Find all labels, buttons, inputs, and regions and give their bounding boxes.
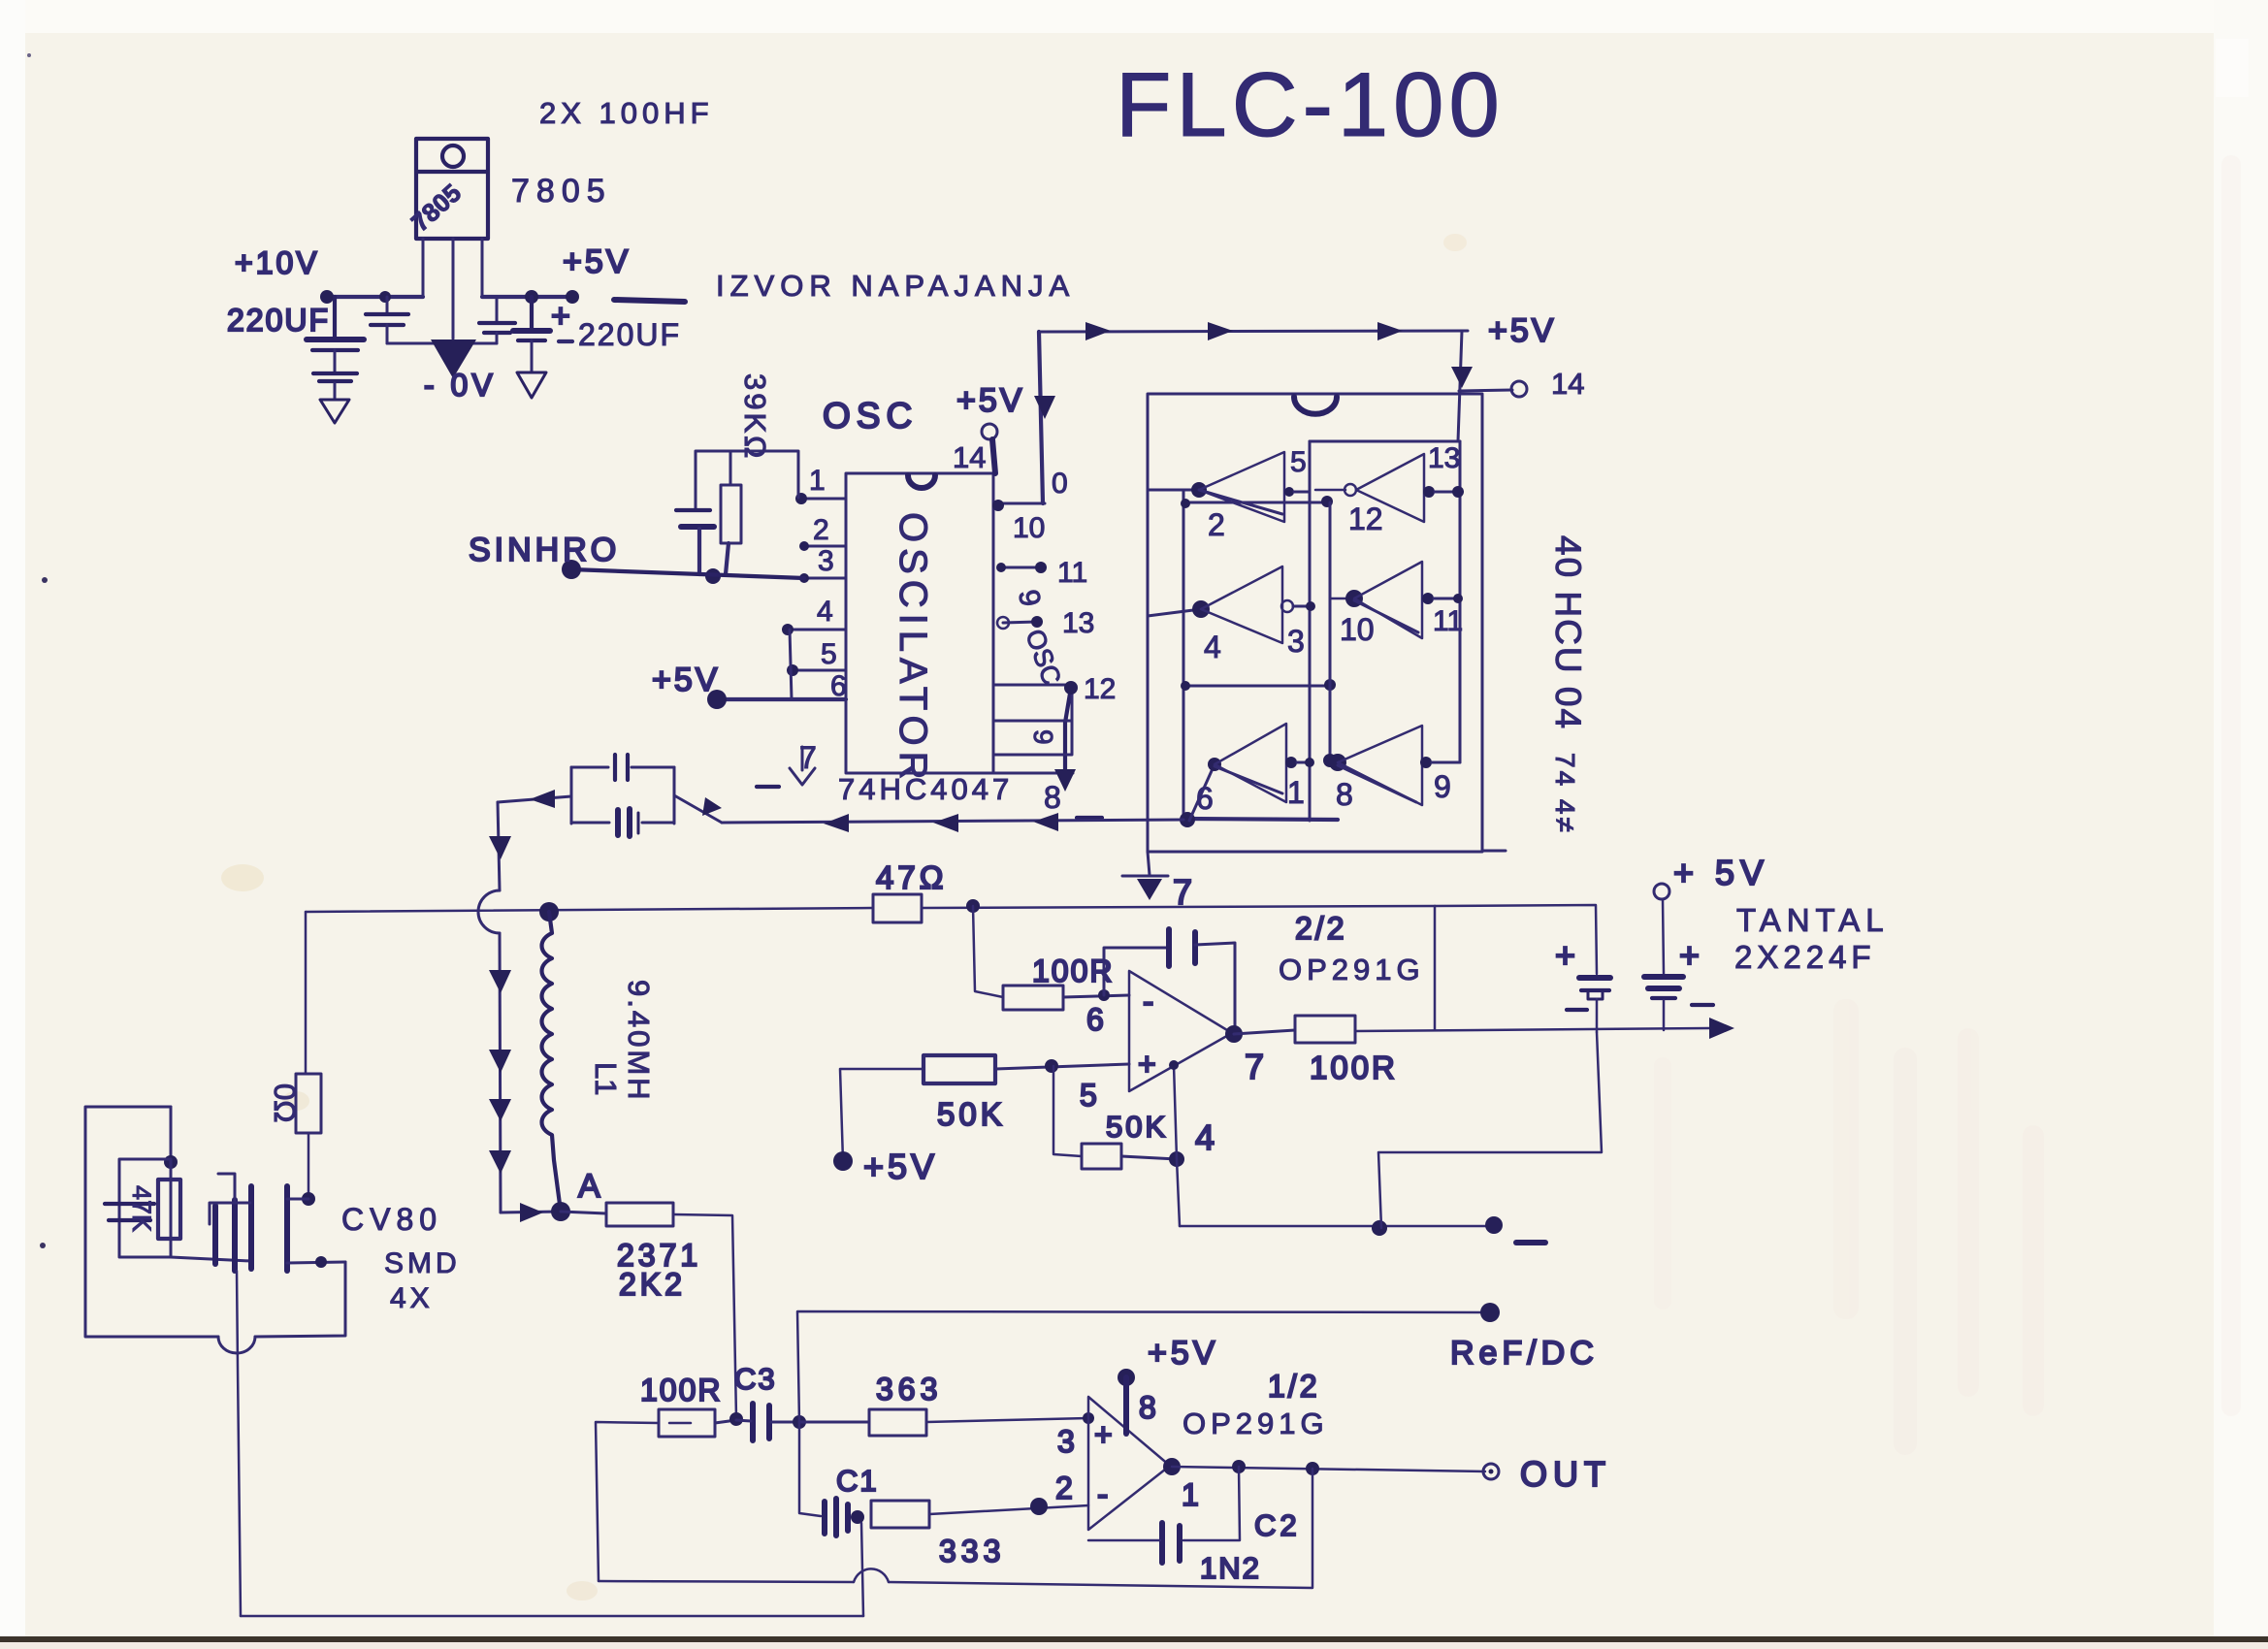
svg-text:220UF: 220UF	[227, 303, 330, 338]
svg-text:CV80: CV80	[341, 1202, 442, 1237]
svg-text:13: 13	[1428, 442, 1460, 474]
svg-text:+5V: +5V	[563, 243, 631, 280]
regulator U3 7805 body	[405, 139, 488, 239]
wire main rail	[306, 908, 873, 912]
pin 11/9 stubs	[1001, 566, 1041, 569]
wire caps to left corner	[498, 796, 571, 802]
svg-text:SMD: SMD	[384, 1247, 461, 1279]
capacitor C2-in ceramic	[366, 297, 408, 343]
wire 100R loop left	[596, 1422, 659, 1581]
svg-text:A: A	[578, 1168, 600, 1205]
resistor R-osc 39K vertical	[721, 451, 741, 574]
svg-text:2X 100HF: 2X 100HF	[539, 96, 714, 130]
wire 363 to +in	[926, 1418, 1088, 1422]
svg-text:+: +	[1555, 935, 1575, 975]
svg-text:11: 11	[1057, 557, 1087, 589]
svg-text:333: 333	[939, 1534, 1005, 1568]
wire rail end down to 0R	[305, 912, 308, 1074]
inverter A2	[1148, 566, 1315, 664]
svg-text:+: +	[1679, 935, 1700, 975]
left drop vertical with arrows	[498, 802, 500, 890]
capacitor C4-out electrolytic 220uF	[513, 297, 570, 398]
svg-text:6: 6	[830, 670, 847, 702]
pin 8 bottom edge extension	[993, 772, 1073, 775]
svg-text:3: 3	[1287, 624, 1305, 659]
IC U1 74HC4047 box	[846, 473, 993, 773]
trimmer block 47K box	[119, 1159, 171, 1257]
terminal SINHRO	[562, 560, 581, 579]
svg-text:2/2: 2/2	[1295, 911, 1346, 946]
rail drop to hex vcc	[1458, 331, 1462, 441]
bus mid vertical	[1329, 502, 1332, 760]
capacitor C3-out ceramic	[479, 297, 515, 343]
capacitor C1	[825, 1499, 848, 1536]
hex bottom edge overshoot	[1482, 850, 1506, 853]
pin 5 stub	[791, 669, 846, 672]
svg-text:1: 1	[1182, 1477, 1199, 1512]
svg-text:74 4≠: 74 4≠	[1550, 753, 1580, 835]
svg-text:1/2: 1/2	[1268, 1369, 1319, 1404]
svg-text:0Ω: 0Ω	[268, 1083, 302, 1122]
wire refdc riser	[797, 1311, 1490, 1422]
ground arrow under C-in	[320, 400, 349, 423]
capacitor Ct1 tantal	[1579, 975, 1610, 981]
svg-text:IZVOR NAPAJANJA: IZVOR NAPAJANJA	[716, 269, 1075, 303]
wire CV80 top lead	[287, 1198, 308, 1201]
resistor R10 363	[869, 1409, 926, 1436]
resistor R8 2371/2K2	[606, 1203, 673, 1226]
inductor L1	[542, 912, 562, 1212]
svg-text:TANTAL: TANTAL	[1736, 902, 1890, 938]
svg-text:1: 1	[1287, 775, 1305, 810]
resistor R5 100R fb	[1295, 1016, 1355, 1043]
resistor R2 0R vertical	[296, 1074, 321, 1133]
inverter B2	[1330, 562, 1463, 647]
39K top bracket wire	[696, 451, 798, 498]
wire C1 branch down	[799, 1422, 821, 1516]
wire 47K bottom to CV80	[171, 1257, 250, 1261]
svg-text:9: 9	[1434, 769, 1451, 804]
svg-text:8: 8	[1139, 1390, 1156, 1425]
wire cap to output corner	[1195, 943, 1235, 1028]
op-amp U4B triangle	[1129, 971, 1232, 1091]
svg-text:C2: C2	[1254, 1508, 1301, 1542]
wire C3 to 363	[799, 1421, 869, 1424]
capacitor C2 loop	[1183, 1467, 1240, 1540]
svg-text:1N2: 1N2	[1200, 1551, 1261, 1585]
wire 0R to CV80	[308, 1133, 310, 1199]
+5V pin8 bar	[1118, 1369, 1135, 1386]
pin 2 stub	[804, 545, 846, 548]
svg-text:14: 14	[953, 440, 986, 474]
svg-text:10: 10	[1340, 612, 1375, 647]
CV80 arm stub	[210, 1203, 250, 1224]
wire input rail	[323, 295, 423, 299]
output node 1/2	[1163, 1458, 1181, 1475]
svg-text:40 HCU 04: 40 HCU 04	[1548, 535, 1588, 730]
wire riser to top rail	[1434, 906, 1437, 1030]
svg-text:9: 9	[1028, 729, 1058, 745]
svg-text:C3: C3	[734, 1362, 777, 1396]
wire fb rail to tantal arrow	[1355, 1028, 1709, 1031]
svg-text:12: 12	[1084, 673, 1116, 705]
resistor R9 100R lower	[659, 1409, 715, 1437]
pin 12 drop wire with arrow	[1065, 688, 1071, 771]
wire 100R to C3	[715, 1420, 736, 1423]
svg-text:8: 8	[1336, 777, 1353, 812]
svg-text:12: 12	[1348, 501, 1383, 536]
inverter B3	[1329, 726, 1460, 812]
pin4-6 tie bar	[790, 630, 792, 699]
svg-text:+: +	[551, 298, 570, 335]
svg-text:3: 3	[1057, 1424, 1075, 1459]
resistor R6 50K	[923, 1055, 995, 1083]
wire rail corner to cap1	[1435, 905, 1597, 974]
wire 333 to -in	[929, 1505, 1088, 1514]
wire SINHRO input	[571, 569, 804, 578]
inner right rect	[1310, 440, 1460, 443]
svg-text:OSC: OSC	[823, 396, 918, 436]
legend dash izvor napajanja	[614, 300, 685, 302]
pin 14 wire hex	[1459, 390, 1512, 391]
wire output to OUT	[1172, 1467, 1485, 1471]
svg-text:2K2: 2K2	[619, 1267, 686, 1302]
capacitor inside 47K	[105, 1204, 154, 1220]
svg-text:1: 1	[809, 465, 826, 497]
svg-text:OSCILATOR: OSCILATOR	[891, 512, 934, 785]
capacitor CV80 plates	[248, 1186, 254, 1269]
rail arrowheads	[1085, 322, 1111, 340]
wire lower return rail	[599, 1581, 854, 1582]
wire +5V top rail	[1039, 331, 1468, 332]
wire mid return rail	[722, 820, 1183, 823]
svg-text:50K: 50K	[937, 1096, 1006, 1132]
pin 6 stub from +5V	[717, 697, 846, 701]
output node 2/2	[1225, 1025, 1243, 1043]
node 47R right	[966, 899, 980, 913]
capacitor C3	[753, 1404, 769, 1440]
wire 50K left to +5V	[840, 1069, 923, 1161]
svg-text:50K: 50K	[1106, 1110, 1168, 1144]
IC notch hex	[1294, 397, 1337, 414]
op-amp U4A triangle	[1088, 1397, 1170, 1530]
outer loop rect left	[85, 1107, 218, 1337]
svg-text:8: 8	[1044, 780, 1061, 815]
svg-text:+: +	[1138, 1047, 1156, 1082]
resistor R11 333	[871, 1501, 929, 1528]
wire 2K2 leads	[561, 1212, 606, 1213]
wire C1 down to bottom rail	[861, 1523, 863, 1616]
svg-text:4X: 4X	[390, 1282, 434, 1314]
pin 3 stub	[804, 577, 846, 580]
svg-text:SINHRO: SINHRO	[469, 532, 620, 568]
svg-text:100R: 100R	[640, 1373, 723, 1407]
svg-text:100R: 100R	[1310, 1050, 1398, 1085]
svg-text:74HC4047: 74HC4047	[838, 772, 1013, 806]
wire 50K lower right	[1121, 1156, 1177, 1159]
resistor R4 100R input	[1003, 986, 1063, 1010]
ground wire to arrow	[387, 342, 497, 345]
svg-text:OUT: OUT	[1520, 1454, 1611, 1494]
svg-text:+5V: +5V	[1488, 312, 1556, 349]
wire down to minus line	[1177, 1159, 1180, 1226]
wire drop to bottom rail	[237, 1271, 241, 1616]
wire +input divider drop	[1053, 1066, 1082, 1156]
pin 13/OSC stubs	[1003, 622, 1037, 623]
wire 50K to +input	[995, 1064, 1129, 1069]
svg-text:9.40MH: 9.40MH	[622, 980, 656, 1103]
feedback cap branch	[1104, 948, 1167, 995]
svg-text:-: -	[1143, 984, 1153, 1020]
wire pin0/10 to riser	[993, 502, 1045, 505]
wire caps to rail	[674, 795, 722, 823]
svg-text:L1: L1	[589, 1062, 623, 1095]
svg-text:4: 4	[1204, 630, 1221, 664]
riser wire to +5V rail	[1039, 332, 1043, 503]
IC notch	[908, 475, 935, 488]
svg-text:6: 6	[1086, 1002, 1104, 1037]
svg-text:100R: 100R	[1032, 954, 1115, 988]
svg-text:3: 3	[818, 545, 834, 577]
svg-text:13: 13	[1062, 607, 1094, 639]
svg-text:363: 363	[876, 1372, 942, 1406]
svg-text:+5V: +5V	[863, 1147, 938, 1186]
wire up to +input	[1174, 1065, 1177, 1159]
node L1 top	[539, 902, 559, 921]
svg-text:2: 2	[813, 514, 829, 546]
pin 4 stub	[788, 629, 846, 631]
wire CV80 bottom lead	[287, 1262, 345, 1263]
svg-text:OP291G: OP291G	[1183, 1406, 1329, 1440]
svg-text:+5V: +5V	[1148, 1335, 1218, 1372]
svg-text:5: 5	[821, 638, 837, 670]
svg-text:2: 2	[1055, 1471, 1073, 1505]
inner left rect	[1183, 490, 1185, 821]
svg-text:OP291G: OP291G	[1279, 953, 1425, 986]
ground arrow center (filled)	[431, 339, 476, 378]
wire corner to node A	[501, 1212, 561, 1212]
svg-text:7: 7	[1245, 1047, 1264, 1086]
arrow on riser	[1034, 396, 1055, 419]
inverter A3	[1189, 724, 1314, 821]
svg-text:14: 14	[1551, 367, 1584, 401]
svg-text:5: 5	[1290, 446, 1307, 478]
svg-text:7805: 7805	[511, 173, 612, 210]
capacitor C-osc	[676, 490, 714, 574]
svg-text:FLC-100: FLC-100	[1116, 53, 1505, 155]
pin 1 stub	[801, 498, 846, 501]
wire rail drop to 100R	[973, 906, 1003, 997]
svg-text:220UF: 220UF	[578, 317, 681, 352]
capacitor Cfb plates	[1169, 929, 1195, 966]
svg-text:+5V: +5V	[652, 662, 720, 698]
node sinhro junction	[705, 568, 721, 584]
svg-text:4: 4	[817, 596, 833, 628]
svg-text:5: 5	[1080, 1078, 1097, 1113]
svg-text:ReF/DC: ReF/DC	[1450, 1335, 1599, 1372]
svg-text:+5V: +5V	[956, 382, 1024, 419]
svg-text:4: 4	[1195, 1117, 1215, 1157]
svg-text:47K: 47K	[127, 1185, 156, 1232]
coupling caps box	[571, 755, 674, 836]
resistor R3 47K vertical	[158, 1180, 180, 1239]
svg-text:6: 6	[1196, 781, 1214, 816]
pin 14 terminal circle	[982, 424, 997, 439]
svg-text:47Ω: 47Ω	[876, 859, 947, 895]
wire minus line	[1180, 1225, 1495, 1228]
wire 100R to inv input	[1063, 995, 1129, 997]
pin 7 hex stem	[1148, 852, 1150, 875]
IC U2 74HCU04 box	[1148, 394, 1482, 852]
capacitor C-in electrolytic	[307, 297, 364, 400]
capacitor Ct2 tantal	[1654, 884, 1669, 899]
svg-text:+10V: +10V	[235, 245, 320, 280]
svg-text:-: -	[1097, 1476, 1108, 1513]
regulator pins	[423, 239, 482, 339]
svg-text:+: +	[1094, 1417, 1113, 1452]
inverter A1	[1148, 446, 1310, 542]
pin 12 link boxes	[993, 685, 1072, 721]
svg-text:2: 2	[1208, 507, 1225, 542]
svg-text:10: 10	[1013, 512, 1045, 544]
svg-text:2X224F: 2X224F	[1734, 939, 1876, 975]
node A dot	[551, 1202, 570, 1221]
svg-text:- 0V: - 0V	[424, 368, 497, 403]
svg-text:11: 11	[1433, 605, 1463, 637]
svg-text:C1: C1	[836, 1464, 879, 1498]
wire bottom rail	[241, 1615, 863, 1618]
svg-text:39KΩ: 39KΩ	[738, 373, 772, 461]
label minus terminal	[1516, 1240, 1545, 1245]
node dot input	[320, 290, 334, 304]
pin 7 ground	[801, 747, 804, 770]
wire output rail	[482, 295, 574, 299]
resistor R1 47R	[873, 894, 922, 922]
resistor R7 50K lower	[1082, 1144, 1121, 1169]
wire cap1 down loop	[1378, 1032, 1602, 1228]
svg-text:+ 5V: + 5V	[1673, 853, 1769, 892]
svg-text:0: 0	[1052, 468, 1068, 500]
inverter B1	[1315, 442, 1464, 536]
